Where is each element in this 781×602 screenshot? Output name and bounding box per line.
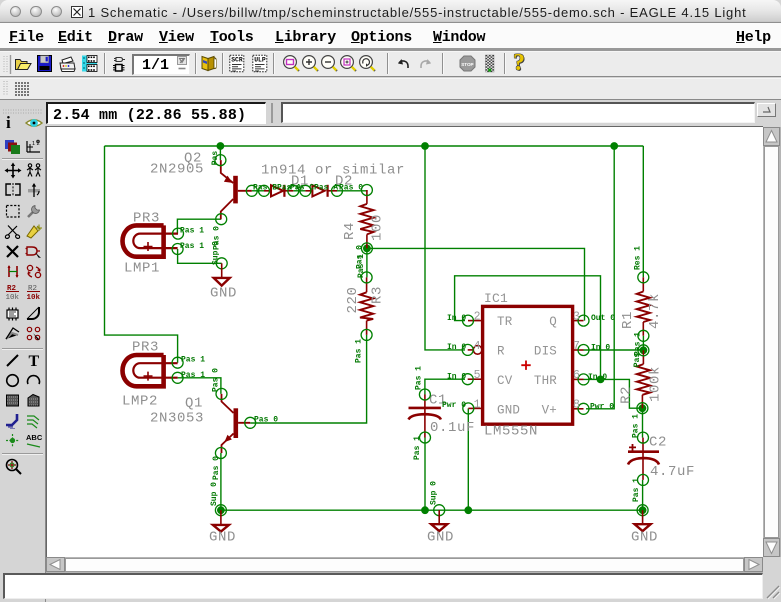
svg-text:Pas 0: Pas 0	[212, 368, 221, 392]
svg-text:LMP2: LMP2	[122, 394, 158, 410]
ground GND3 middle	[427, 505, 454, 546]
wire Q2 base to D1	[252, 190, 264, 192]
toolbar row 2 (grid)	[0, 78, 781, 100]
svg-text:In 0: In 0	[447, 343, 466, 352]
r3: move	[4, 162, 22, 179]
node junction V+ drop on rail	[586, 142, 618, 409]
diode D1	[264, 174, 309, 197]
r8: gateswap	[25, 263, 43, 280]
cam film	[81, 54, 98, 73]
ULP	[252, 54, 268, 73]
capacitor C1 0.1uF	[409, 393, 476, 438]
wire D2 to R4	[337, 189, 367, 192]
r9: value	[25, 283, 43, 302]
pin circles R1	[638, 272, 649, 342]
pin 7 DIS	[573, 340, 589, 356]
svg-text:Pas 1: Pas 1	[181, 371, 205, 380]
sheet icon	[111, 54, 126, 73]
wire C2 bottom to GND rail	[639, 480, 647, 514]
title bar	[0, 0, 781, 23]
svg-text:100k: 100k	[648, 366, 664, 402]
svg-text:PR3: PR3	[133, 211, 160, 227]
pin circles LMP2	[172, 357, 183, 383]
svg-text:220: 220	[345, 286, 361, 313]
svg-text:GND: GND	[210, 286, 237, 302]
svg-text:Pas 0: Pas 0	[339, 183, 363, 192]
zoom fit	[282, 54, 301, 74]
zoom redraw	[358, 54, 377, 74]
pin 1 GND	[463, 399, 483, 414]
wire Q1 emitter to GND rail	[220, 453, 222, 510]
svg-text:TR: TR	[497, 315, 513, 329]
pin circles C1	[419, 389, 430, 443]
svg-text:8: 8	[573, 399, 580, 412]
pin circles C2	[638, 432, 649, 485]
print	[58, 54, 77, 73]
svg-text:In 0: In 0	[447, 314, 466, 323]
undo	[395, 56, 413, 72]
svg-text:ULP: ULP	[254, 57, 266, 64]
svg-text:Pas 1: Pas 1	[634, 332, 643, 356]
pin circles D1	[259, 185, 299, 196]
svg-text:Pwr 0: Pwr 0	[442, 401, 466, 410]
r3: copy	[25, 162, 43, 179]
svg-text:100: 100	[370, 214, 386, 241]
pin 5 CV	[462, 369, 482, 385]
svg-text:Pas 1: Pas 1	[357, 254, 366, 278]
r12: wire	[4, 352, 22, 369]
node junction Q1 emitter GND	[217, 506, 225, 514]
node junction Q2 emitter on rail	[217, 142, 225, 160]
r5: change wrench	[25, 203, 43, 220]
svg-text:T: T	[29, 353, 40, 369]
r7: add	[25, 243, 43, 260]
svg-text:2N2905: 2N2905	[150, 162, 204, 178]
resistor R1 4.7k	[620, 277, 663, 336]
library book	[200, 54, 217, 73]
wire IC pin1 GND down to rail	[464, 408, 472, 514]
svg-text:Pas 1: Pas 1	[180, 242, 204, 251]
svg-text:4.7uF: 4.7uF	[650, 464, 695, 480]
svg-text:Pas 1: Pas 1	[632, 414, 641, 438]
svg-text:In 0: In 0	[447, 373, 466, 382]
svg-text:GND: GND	[427, 530, 454, 546]
grid button	[13, 80, 32, 97]
svg-text:Q1: Q1	[185, 396, 203, 412]
r11: split	[4, 325, 22, 342]
wire rail corner down to R1	[642, 146, 644, 277]
wire R3 bottom to Q1 base	[250, 335, 366, 423]
wire LMP2 bottom to Q1 collector	[178, 378, 221, 394]
r10: miter	[25, 305, 43, 322]
svg-text:1n914 or similar: 1n914 or similar	[261, 163, 405, 179]
svg-text:Pas 1: Pas 1	[180, 227, 204, 236]
wire VCC top rail	[105, 145, 644, 147]
zoom out	[320, 54, 339, 74]
wire THR pin6 to node and R2 bottom	[584, 376, 643, 409]
svg-text:Pas 1: Pas 1	[632, 478, 641, 502]
resistor R2 100k	[619, 350, 664, 408]
r4: mirror	[4, 182, 22, 199]
svg-text:LMP1: LMP1	[124, 261, 160, 277]
svg-text:Out 0: Out 0	[591, 314, 615, 323]
pin 6 THR	[573, 369, 589, 385]
menu bar	[0, 23, 781, 48]
svg-text:R1: R1	[620, 311, 636, 329]
r7: delete	[4, 243, 22, 260]
svg-text:In 0: In 0	[588, 373, 607, 382]
svg-text:Q: Q	[549, 315, 557, 329]
capacitor C2 4.7uF polarized	[628, 435, 695, 481]
node junction R2 bottom THR	[639, 404, 647, 412]
r5: group	[4, 203, 22, 220]
svg-text:IC1: IC1	[484, 291, 508, 306]
svg-text:Pas 1: Pas 1	[415, 366, 424, 390]
r6: cut scissors	[4, 223, 22, 240]
vertical scrollbar	[763, 127, 781, 557]
lamp LMP1 PR3	[122, 211, 178, 277]
svg-text:ABC: ABC	[26, 433, 43, 442]
svg-text:LM555N: LM555N	[484, 424, 538, 440]
redo (disabled)	[416, 56, 434, 72]
svg-text:Pwr 0: Pwr 0	[590, 402, 614, 411]
pin circles R4	[361, 185, 372, 254]
open	[14, 54, 32, 73]
r13: arc	[25, 372, 43, 389]
main canvas	[46, 126, 763, 557]
svg-text:In 0: In 0	[591, 344, 610, 353]
r15: net	[25, 412, 43, 429]
r14: rect	[4, 392, 22, 409]
ground GND4 right	[631, 505, 658, 546]
r1: show eye	[25, 116, 43, 130]
svg-text:Sup 0: Sup 0	[430, 481, 439, 505]
pin circles LMP1	[172, 228, 183, 254]
zoom in	[301, 54, 320, 74]
pin 3 Q	[573, 310, 589, 326]
r12: text	[25, 352, 43, 369]
svg-text:Pas: Pas	[211, 151, 220, 166]
transistor Q1 2N3053	[150, 394, 250, 453]
svg-text:R3: R3	[369, 286, 385, 304]
pin label texts green small	[180, 151, 643, 506]
r10: smash	[4, 305, 22, 322]
pin 8 V+	[573, 399, 589, 415]
wire C1 bottom to GND rail	[421, 438, 429, 515]
r13: circle	[4, 372, 22, 389]
transistor Q2 2N2905	[150, 151, 252, 220]
r14: polygon	[25, 392, 43, 409]
svg-text:THR: THR	[534, 374, 557, 388]
node R4-R3 junction, wire to 555 Q pin 3	[363, 245, 585, 321]
coordinate / command row	[0, 100, 781, 126]
r9: name	[4, 283, 22, 302]
pin circles Q2	[215, 155, 257, 225]
resize grip	[764, 583, 781, 600]
wire Q2 collector to LMP1 top pin	[177, 219, 221, 233]
svg-text:6: 6	[573, 369, 580, 382]
ground GND2 bottom left	[209, 505, 236, 546]
svg-text:V+: V+	[542, 404, 557, 418]
svg-text:Sup 0: Sup 0	[210, 482, 219, 506]
save	[37, 54, 52, 73]
wire LMP1 bottom pin to GND1	[178, 249, 222, 263]
horizontal scrollbar	[46, 557, 763, 573]
svg-text:Pas 1: Pas 1	[181, 356, 205, 365]
r15: bus	[4, 412, 22, 429]
svg-text:10k: 10k	[27, 294, 41, 302]
svg-text:1: 1	[474, 399, 481, 412]
r16: label	[25, 432, 43, 449]
pin circles D2	[300, 185, 343, 196]
svg-text:R: R	[497, 345, 505, 359]
help	[513, 50, 525, 77]
r6: paste	[25, 223, 43, 240]
svg-text:Pas 0: Pas 0	[212, 456, 221, 480]
svg-text:PR3: PR3	[132, 340, 159, 356]
svg-text:Pas 0: Pas 0	[254, 416, 278, 425]
svg-text:2N3053: 2N3053	[150, 411, 204, 427]
r2: display layers	[4, 138, 22, 155]
wire left edge to LMP2	[105, 146, 178, 363]
pin 2 TR	[463, 310, 483, 326]
wire R1 bottom to R2 top	[642, 336, 644, 351]
svg-text:5: 5	[474, 369, 481, 382]
sheet selector combo	[132, 54, 190, 75]
stop (disabled)	[458, 54, 477, 74]
diode D2	[305, 174, 353, 197]
wire D1 to D2	[293, 190, 305, 192]
svg-text:4: 4	[474, 340, 481, 353]
lamp LMP2 PR3	[122, 340, 178, 410]
svg-text:GND: GND	[209, 530, 236, 546]
svg-text:DIS: DIS	[534, 345, 557, 359]
svg-text:Sup 0: Sup 0	[212, 241, 221, 265]
svg-text:Pas 1: Pas 1	[413, 436, 422, 460]
svg-text:Pas CPas A: Pas CPas A	[290, 183, 338, 192]
r8: pinswap	[4, 263, 22, 280]
svg-text:3: 3	[573, 310, 580, 323]
r11: invoke	[25, 325, 43, 342]
op-amp IC1 LM555N box	[483, 291, 573, 440]
svg-text:GND: GND	[631, 530, 658, 546]
svg-text:7: 7	[573, 340, 580, 353]
pin circles R2	[637, 345, 649, 414]
resistor R3 220	[345, 277, 386, 335]
svg-text:C2: C2	[649, 435, 667, 451]
svg-text:Pas 1: Pas 1	[355, 339, 364, 363]
ground GND1 under LMP1	[210, 258, 237, 302]
note text 1n914 or similar	[261, 163, 405, 179]
node junction reset drop on rail	[421, 142, 465, 350]
wire CV pin5 to C1	[425, 379, 465, 394]
r17: erc	[4, 457, 24, 476]
pin circles R3	[361, 272, 372, 341]
svg-text:STOP: STOP	[461, 62, 473, 67]
svg-text:R4: R4	[342, 222, 358, 240]
wire R2 bottom to C2 top	[642, 408, 644, 437]
r16: junction	[4, 432, 22, 449]
resistor R4 100	[342, 190, 386, 248]
wire TR pin2 loop to THR node	[455, 276, 601, 380]
svg-text:SCR: SCR	[231, 57, 243, 64]
svg-text:Res 1: Res 1	[634, 246, 643, 270]
svg-text:GND: GND	[497, 404, 520, 418]
toolbar row 1	[0, 51, 781, 77]
wire R4 bottom to R3 top	[366, 248, 368, 277]
dither column (disabled)	[482, 54, 497, 74]
r1: info	[6, 113, 11, 133]
svg-text:1 2: 1 2	[32, 141, 40, 147]
zoom select	[339, 54, 358, 74]
svg-text:CV: CV	[497, 374, 513, 388]
svg-text:Pas: Pas	[633, 353, 642, 368]
svg-text:0.1uF: 0.1uF	[430, 420, 475, 436]
wire DIS pin7 to R1/R2 node	[584, 346, 648, 354]
wire GND bottom rail	[221, 509, 643, 511]
pin circles Q1	[215, 388, 255, 458]
pin 4 R with inversion bubble	[462, 340, 482, 356]
svg-text:2: 2	[474, 310, 481, 323]
r4: rotate	[25, 182, 43, 199]
svg-text:4.7k: 4.7k	[647, 293, 663, 329]
SCR	[229, 54, 245, 73]
left sidebar	[0, 100, 46, 602]
svg-text:10k: 10k	[6, 294, 20, 302]
svg-text:R2: R2	[619, 386, 635, 404]
status bar	[3, 573, 763, 599]
